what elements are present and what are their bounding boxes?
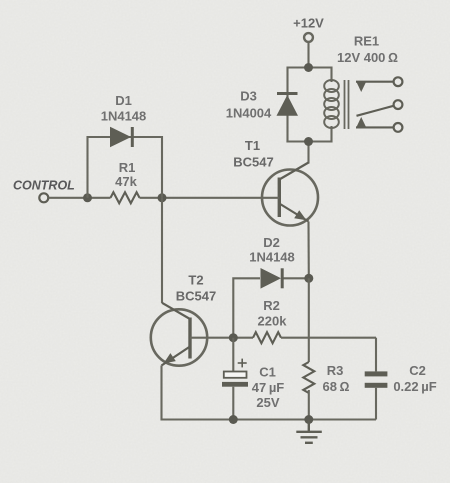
resistor R1	[111, 192, 140, 203]
resistor R3	[303, 362, 314, 393]
svg-text:BC547: BC547	[233, 155, 273, 170]
svg-text:1N4004: 1N4004	[226, 106, 272, 121]
svg-text:1N4148: 1N4148	[101, 109, 147, 124]
transistor T2	[151, 303, 207, 366]
wire: relay top rail	[288, 68, 332, 142]
svg-text:+12V: +12V	[293, 16, 324, 31]
diode D3	[277, 94, 299, 116]
svg-text:T1: T1	[245, 138, 260, 153]
CONTROL terminal	[39, 193, 48, 202]
wire: base rail T2	[190, 337, 253, 339]
svg-text:47 µF: 47 µF	[252, 380, 285, 395]
svg-text:C2: C2	[409, 363, 426, 378]
ground	[296, 420, 322, 443]
wire: D2 left leg	[233, 278, 260, 337]
wire: bottom rail	[162, 366, 377, 420]
wire: D1 branch	[88, 137, 163, 198]
svg-text:R2: R2	[263, 298, 280, 313]
diode D2	[261, 268, 283, 289]
capacitor C1	[222, 338, 248, 420]
wire: R3 bottom	[308, 390, 310, 420]
svg-text:CONTROL: CONTROL	[13, 179, 75, 193]
capacitor C2	[365, 338, 388, 420]
relay contact: movable arm	[357, 100, 403, 116]
+12V terminal	[304, 33, 313, 42]
svg-text:D2: D2	[263, 235, 280, 250]
svg-text:1N4148: 1N4148	[249, 250, 295, 265]
svg-text:25V: 25V	[256, 395, 279, 410]
wire: R3 top	[308, 278, 310, 362]
node: ground junction	[304, 415, 313, 424]
node B	[158, 193, 167, 202]
wire: T1 collector drop	[307, 142, 309, 163]
relay core	[345, 80, 349, 129]
svg-text:12V 400 Ω: 12V 400 Ω	[337, 50, 398, 65]
wire: R2 to C2	[281, 337, 376, 339]
svg-text:D1: D1	[115, 93, 132, 108]
svg-text:BC547: BC547	[176, 289, 216, 304]
node: relay top junction	[304, 63, 313, 72]
node: T2 base junction	[229, 333, 238, 342]
wire: control line	[49, 197, 111, 199]
svg-text:D3: D3	[240, 89, 257, 104]
svg-text:RE1: RE1	[354, 34, 379, 49]
wire: relay bottom rail	[288, 127, 332, 142]
svg-text:47k: 47k	[115, 174, 137, 189]
svg-text:R1: R1	[119, 160, 136, 175]
svg-text:68 Ω: 68 Ω	[322, 379, 349, 394]
wire: T2 collector vertical	[161, 198, 163, 303]
node: relay bottom junction	[304, 137, 313, 146]
resistor R2	[253, 332, 281, 343]
relay contact: bottom fixed	[356, 117, 402, 132]
node: C1 bottom junction	[229, 415, 238, 424]
wire: +12V feed	[307, 42, 309, 68]
svg-text:C1: C1	[259, 365, 276, 380]
svg-text:T2: T2	[188, 273, 203, 288]
transistor T1	[262, 163, 318, 226]
svg-text:220k: 220k	[258, 314, 288, 329]
node A	[83, 193, 92, 202]
relay contact: top fixed	[356, 77, 402, 92]
wire: D2 right	[283, 277, 309, 279]
node: D2 cathode junction	[304, 274, 313, 283]
svg-text:0.22 µF: 0.22 µF	[393, 379, 436, 394]
wire: T1 emitter to D2 node	[307, 222, 309, 279]
diode D1	[110, 127, 132, 148]
svg-text:R3: R3	[327, 363, 344, 378]
relay RE1 coil	[324, 80, 339, 128]
